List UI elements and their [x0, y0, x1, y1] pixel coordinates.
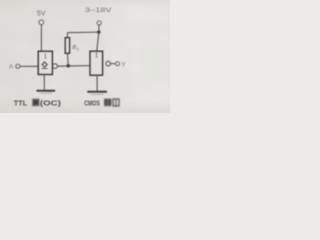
ground of U2 [88, 91, 106, 93]
gate U1 TTL inverter (OC) box [38, 51, 52, 74]
svg-text:5V: 5V [37, 9, 46, 18]
terminal 5V [39, 20, 44, 25]
caption CJK chars fei-men (NOT gate) right [104, 99, 119, 106]
junction dot on supply line [97, 30, 100, 33]
output bubble of U1 [53, 64, 58, 69]
wire supply terminal down to CMOS gate top [97, 25, 99, 51]
terminal 3~18V [97, 21, 101, 25]
svg-text:1: 1 [95, 51, 99, 59]
wire resistor top to supply rail [67, 32, 98, 38]
caption CJK char men (gate) left [32, 99, 39, 106]
svg-text:L: L [76, 47, 80, 52]
svg-text:A: A [9, 63, 14, 70]
svg-text:TTL: TTL [14, 98, 28, 107]
ground of U1 [37, 90, 54, 92]
terminal A [16, 64, 20, 68]
output bubble of U2 [106, 61, 111, 66]
paper background [0, 0, 170, 113]
svg-text:CMOS: CMOS [84, 98, 100, 107]
terminal Y [116, 62, 120, 66]
resistor RL pull-up [65, 38, 69, 54]
wire A to TTL input [20, 65, 38, 67]
gate U2 CMOS inverter box [90, 51, 103, 75]
wire U2 bottom to ground [96, 75, 98, 91]
circuit schematic: TTL OC gate driving CMOS gate with pull-up resistor [0, 0, 170, 113]
junction dot at resistor bottom [66, 64, 70, 68]
open-collector diamond symbol in U1 [42, 62, 47, 69]
wire U1 bottom to ground [43, 75, 45, 91]
svg-text:Y: Y [121, 61, 126, 68]
wire 5V to TTL gate top [40, 25, 42, 51]
svg-text:R: R [71, 44, 76, 51]
wire resistor bottom to junction [67, 53, 70, 66]
svg-text:1: 1 [44, 52, 48, 60]
svg-text:3–18V: 3–18V [85, 7, 112, 14]
caption TTL gate (OC) [14, 98, 62, 107]
svg-text:(OC): (OC) [40, 98, 62, 107]
wire U2 output to Y terminal [111, 63, 116, 65]
wire U1 output to CMOS gate input [57, 65, 90, 68]
caption CMOS gate [84, 98, 100, 107]
